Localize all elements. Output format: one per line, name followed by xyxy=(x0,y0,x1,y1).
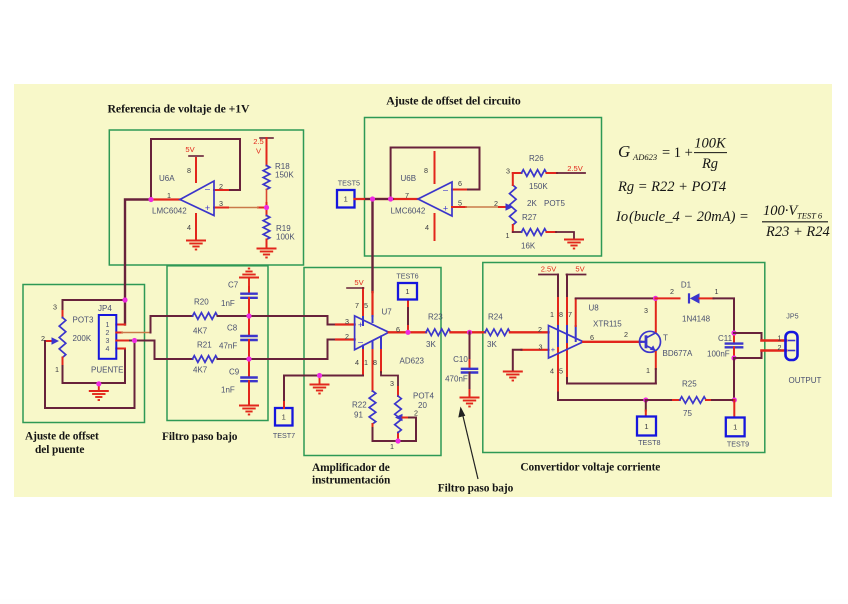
svg-text:1: 1 xyxy=(644,422,648,431)
svg-text:3: 3 xyxy=(539,343,543,352)
svg-text:4: 4 xyxy=(187,223,191,232)
svg-text:1nF: 1nF xyxy=(221,299,235,308)
svg-text:TEST8: TEST8 xyxy=(638,438,660,447)
svg-text:1: 1 xyxy=(106,322,110,329)
svg-text:1: 1 xyxy=(364,358,368,367)
svg-text:1: 1 xyxy=(715,287,719,296)
svg-text:1: 1 xyxy=(506,231,510,240)
svg-text:POT3: POT3 xyxy=(73,316,94,325)
svg-text:C10: C10 xyxy=(453,355,468,364)
svg-text:R23 + R24: R23 + R24 xyxy=(765,224,830,240)
svg-text:5V: 5V xyxy=(185,145,195,154)
svg-text:8: 8 xyxy=(559,310,563,319)
svg-text:3: 3 xyxy=(345,317,349,326)
svg-text:2: 2 xyxy=(670,287,674,296)
svg-text:R24: R24 xyxy=(488,313,503,322)
svg-text:100nF: 100nF xyxy=(707,350,730,359)
svg-text:POT4: POT4 xyxy=(413,392,434,401)
svg-text:BD677A: BD677A xyxy=(663,349,693,358)
svg-text:4: 4 xyxy=(550,367,554,376)
svg-text:Convertidor voltaje corriente: Convertidor voltaje corriente xyxy=(520,462,660,474)
svg-text:5V: 5V xyxy=(354,278,364,287)
svg-text:AD623: AD623 xyxy=(400,357,425,366)
svg-text:100·V: 100·V xyxy=(763,203,799,219)
svg-text:C9: C9 xyxy=(229,368,240,377)
svg-text:R21: R21 xyxy=(197,341,212,350)
svg-text:4K7: 4K7 xyxy=(193,366,208,375)
svg-text:1: 1 xyxy=(405,287,409,296)
svg-text:100K: 100K xyxy=(694,136,727,152)
svg-text:7: 7 xyxy=(405,191,409,200)
svg-text:3: 3 xyxy=(106,338,110,345)
svg-text:91: 91 xyxy=(354,411,363,420)
svg-text:6: 6 xyxy=(458,179,462,188)
svg-text:U7: U7 xyxy=(382,308,393,317)
svg-text:3: 3 xyxy=(390,379,394,388)
svg-text:1: 1 xyxy=(733,423,737,432)
svg-text:4: 4 xyxy=(106,346,110,353)
svg-text:R22: R22 xyxy=(352,401,367,410)
svg-text:JP4: JP4 xyxy=(98,304,112,313)
svg-text:C7: C7 xyxy=(228,281,239,290)
svg-text:6: 6 xyxy=(590,333,594,342)
svg-text:4: 4 xyxy=(355,358,359,367)
svg-text:2: 2 xyxy=(219,182,223,191)
svg-text:TEST5: TEST5 xyxy=(338,179,360,188)
svg-text:TEST 6: TEST 6 xyxy=(797,211,823,221)
svg-text:JP5: JP5 xyxy=(786,312,798,321)
svg-text:TEST9: TEST9 xyxy=(727,440,749,449)
svg-text:75: 75 xyxy=(683,409,692,418)
svg-text:XTR115: XTR115 xyxy=(593,320,622,329)
svg-text:8: 8 xyxy=(187,166,191,175)
svg-text:7: 7 xyxy=(355,301,359,310)
svg-text:6: 6 xyxy=(396,325,400,334)
svg-text:20: 20 xyxy=(418,401,427,410)
svg-text:Rg = R22 + POT4: Rg = R22 + POT4 xyxy=(617,179,726,195)
svg-text:3K: 3K xyxy=(487,340,497,349)
svg-text:Io: Io xyxy=(615,209,628,225)
svg-text:R27: R27 xyxy=(522,213,537,222)
svg-text:TEST7: TEST7 xyxy=(273,431,295,440)
svg-text:470nF: 470nF xyxy=(445,375,468,384)
svg-text:POT5: POT5 xyxy=(544,199,565,208)
svg-text:+: + xyxy=(205,203,210,213)
svg-text:G: G xyxy=(618,142,630,161)
svg-text:LMC6042: LMC6042 xyxy=(391,207,426,216)
svg-text:8: 8 xyxy=(424,166,428,175)
svg-text:1: 1 xyxy=(778,334,782,343)
svg-text:Rg: Rg xyxy=(701,156,718,172)
svg-text:1: 1 xyxy=(282,413,286,422)
svg-text:(bucle_4 − 20mA) =: (bucle_4 − 20mA) = xyxy=(629,209,749,225)
svg-text:47nF: 47nF xyxy=(219,342,237,351)
svg-text:3: 3 xyxy=(219,199,223,208)
svg-text:1: 1 xyxy=(55,365,59,374)
svg-text:150K: 150K xyxy=(275,171,294,180)
svg-text:U6A: U6A xyxy=(159,174,175,183)
svg-text:1: 1 xyxy=(167,191,171,200)
svg-text:–: – xyxy=(205,184,210,194)
svg-text:5: 5 xyxy=(458,199,462,208)
svg-text:TEST6: TEST6 xyxy=(396,272,418,281)
svg-text:100K: 100K xyxy=(276,233,295,242)
svg-text:7: 7 xyxy=(568,310,572,319)
svg-text:–: – xyxy=(443,185,448,195)
svg-text:C11: C11 xyxy=(718,334,733,343)
svg-text:R20: R20 xyxy=(194,298,209,307)
svg-text:2: 2 xyxy=(106,330,110,337)
svg-text:5: 5 xyxy=(559,367,563,376)
svg-text:3: 3 xyxy=(644,306,648,315)
svg-text:2.5V: 2.5V xyxy=(541,265,558,274)
svg-text:200K: 200K xyxy=(73,334,92,343)
svg-text:= 1 +: = 1 + xyxy=(662,145,693,161)
svg-text:Ajuste de offset del circuito: Ajuste de offset del circuito xyxy=(386,94,521,108)
svg-text:PUENTE: PUENTE xyxy=(91,366,123,375)
svg-text:2.5: 2.5 xyxy=(253,137,264,146)
svg-text:U6B: U6B xyxy=(401,174,417,183)
svg-text:R23: R23 xyxy=(428,313,443,322)
svg-text:4K7: 4K7 xyxy=(193,327,208,336)
svg-text:AD623: AD623 xyxy=(632,152,657,162)
svg-text:1: 1 xyxy=(390,442,394,451)
svg-text:2: 2 xyxy=(345,332,349,341)
svg-text:R26: R26 xyxy=(529,154,544,163)
svg-text:4: 4 xyxy=(425,223,429,232)
svg-text:Filtro paso bajo: Filtro paso bajo xyxy=(162,431,238,443)
svg-text:LMC6042: LMC6042 xyxy=(152,207,187,216)
svg-text:1nF: 1nF xyxy=(221,386,235,395)
svg-text:3: 3 xyxy=(53,303,57,312)
svg-text:+: + xyxy=(551,345,556,354)
svg-text:5V: 5V xyxy=(575,265,585,274)
svg-text:2: 2 xyxy=(494,199,498,208)
svg-text:Filtro paso bajo: Filtro paso bajo xyxy=(438,483,514,495)
svg-text:+: + xyxy=(443,204,448,214)
svg-text:2: 2 xyxy=(41,334,45,343)
svg-text:C8: C8 xyxy=(227,324,238,333)
svg-text:Ajuste de offset: Ajuste de offset xyxy=(25,431,99,443)
svg-text:T: T xyxy=(663,334,668,343)
svg-text:Referencia de voltaje de +1V: Referencia de voltaje de +1V xyxy=(108,101,251,115)
svg-text:Amplificador de: Amplificador de xyxy=(312,462,390,474)
svg-text:8: 8 xyxy=(373,358,377,367)
svg-text:2.5V: 2.5V xyxy=(567,164,584,173)
svg-text:1: 1 xyxy=(646,366,650,375)
svg-text:+: + xyxy=(358,320,363,330)
svg-text:3K: 3K xyxy=(426,340,436,349)
svg-text:del puente: del puente xyxy=(35,444,84,456)
svg-text:1N4148: 1N4148 xyxy=(682,315,711,324)
svg-text:2: 2 xyxy=(538,325,542,334)
svg-text:3: 3 xyxy=(506,167,510,176)
svg-text:D1: D1 xyxy=(681,281,692,290)
svg-text:OUTPUT: OUTPUT xyxy=(789,376,822,385)
svg-text:instrumentación: instrumentación xyxy=(312,475,391,487)
svg-text:R25: R25 xyxy=(682,380,697,389)
svg-text:1: 1 xyxy=(344,195,348,204)
svg-text:150K: 150K xyxy=(529,182,548,191)
svg-text:5: 5 xyxy=(364,301,368,310)
svg-text:2K: 2K xyxy=(527,199,537,208)
svg-text:U8: U8 xyxy=(589,304,600,313)
svg-text:2: 2 xyxy=(624,330,628,339)
svg-text:16K: 16K xyxy=(521,242,536,251)
svg-text:2: 2 xyxy=(778,343,782,352)
svg-text:1: 1 xyxy=(550,310,554,319)
